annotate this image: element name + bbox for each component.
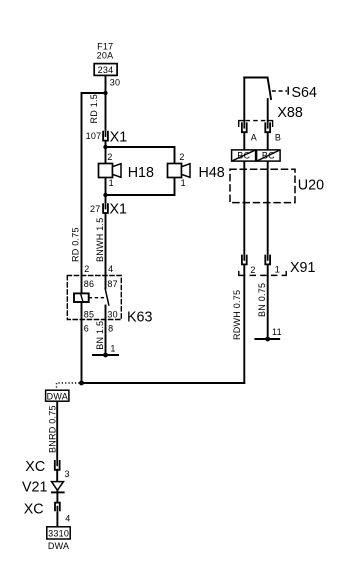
svg-text:11: 11	[272, 327, 282, 337]
svg-text:234: 234	[98, 65, 114, 75]
svg-text:RD 0.75: RD 0.75	[70, 227, 80, 262]
svg-text:DWA: DWA	[48, 541, 69, 551]
svg-text:X1: X1	[110, 202, 128, 218]
svg-text:A: A	[251, 132, 257, 142]
svg-text:XC: XC	[25, 459, 45, 475]
svg-text:BNRD 0.75: BNRD 0.75	[48, 405, 58, 453]
svg-text:4: 4	[65, 513, 70, 523]
svg-text:6: 6	[84, 323, 89, 333]
svg-text:2: 2	[84, 264, 89, 274]
svg-text:1: 1	[181, 178, 186, 188]
svg-text:BNWH 1.5: BNWH 1.5	[95, 217, 105, 262]
svg-text:BC: BC	[262, 150, 275, 160]
svg-text:85: 85	[84, 309, 95, 319]
svg-text:1: 1	[275, 264, 280, 274]
svg-text:B: B	[275, 132, 281, 142]
svg-text:RD 1.5: RD 1.5	[89, 94, 99, 124]
svg-text:30: 30	[110, 77, 121, 87]
svg-text:X91: X91	[290, 260, 315, 276]
svg-text:H18: H18	[128, 165, 154, 181]
svg-text:1: 1	[109, 178, 114, 188]
svg-text:1: 1	[110, 343, 115, 353]
svg-text:X1: X1	[110, 129, 128, 145]
svg-text:87: 87	[107, 279, 118, 289]
svg-text:107: 107	[86, 131, 102, 141]
svg-text:4: 4	[108, 264, 113, 274]
svg-text:BN 1.5: BN 1.5	[95, 321, 105, 350]
svg-text:BN 0.75: BN 0.75	[257, 283, 267, 317]
svg-text:2: 2	[250, 265, 255, 275]
svg-text:H48: H48	[199, 165, 225, 181]
svg-text:3310: 3310	[48, 529, 69, 539]
svg-text:86: 86	[84, 279, 95, 289]
svg-text:BC: BC	[237, 150, 250, 160]
svg-text:V21: V21	[22, 479, 47, 495]
svg-text:2: 2	[179, 152, 184, 162]
svg-text:S64: S64	[292, 85, 317, 101]
svg-text:DWA: DWA	[47, 391, 68, 401]
svg-text:8: 8	[108, 323, 113, 333]
svg-text:3: 3	[65, 469, 70, 479]
svg-text:XC: XC	[24, 502, 44, 518]
svg-text:RDWH 0.75: RDWH 0.75	[232, 290, 242, 340]
svg-text:30: 30	[107, 309, 118, 319]
svg-text:U20: U20	[298, 177, 324, 193]
svg-text:K63: K63	[127, 310, 152, 326]
svg-text:X88: X88	[277, 105, 302, 121]
svg-text:27: 27	[90, 204, 101, 214]
svg-text:20A: 20A	[97, 51, 114, 61]
svg-text:2: 2	[107, 152, 112, 162]
